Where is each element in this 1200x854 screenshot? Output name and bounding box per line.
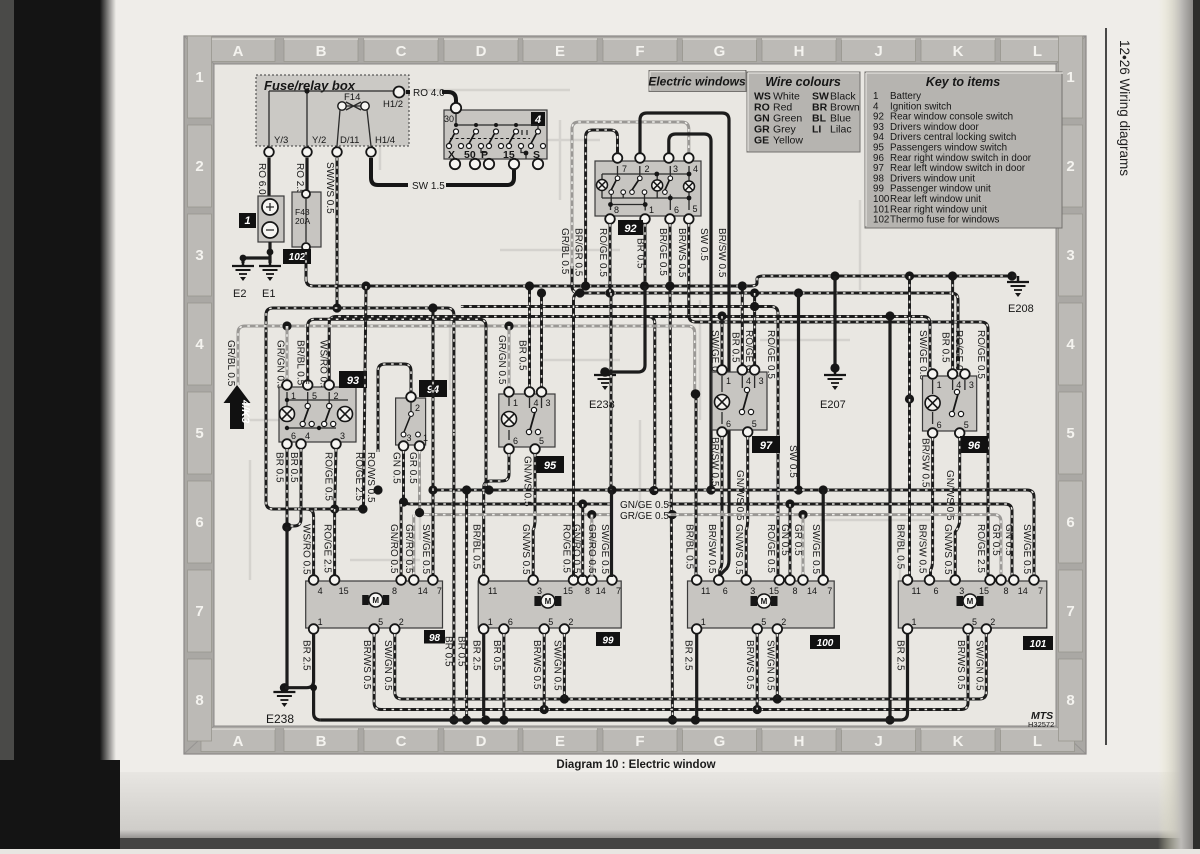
100 pin 6 — [714, 575, 728, 596]
92 internals — [597, 166, 695, 211]
wire GR/GN 0.5 from B6 to 93 pin 1 — [275, 326, 288, 390]
97 pin 3 — [750, 365, 764, 386]
98 pin 1 — [309, 617, 323, 634]
101 pin 1 — [903, 617, 917, 634]
svg-text:E208: E208 — [1008, 303, 1034, 315]
95 pin 5 — [530, 436, 544, 454]
svg-text:RO/GE 0.5: RO/GE 0.5 — [597, 228, 608, 277]
svg-text:GN 0.5: GN 0.5 — [779, 524, 790, 556]
battery B1 — [258, 196, 284, 242]
wire BR 2.5 from 98 pin 1 to E238 — [285, 634, 314, 688]
badge 96 — [960, 436, 988, 453]
svg-text:4: 4 — [534, 398, 539, 408]
92 pin 7 — [613, 153, 627, 174]
svg-text:8: 8 — [1004, 586, 1009, 596]
svg-text:6: 6 — [513, 436, 518, 446]
svg-text:RO 6.0: RO 6.0 — [256, 163, 267, 195]
badge 92 — [618, 220, 643, 235]
svg-text:1: 1 — [912, 617, 917, 627]
svg-text:SW 0.5: SW 0.5 — [787, 445, 798, 478]
svg-text:3: 3 — [759, 376, 764, 386]
grid column tab L top — [1001, 39, 1075, 62]
bus T3 GR/GE 0.5 — [427, 510, 1002, 577]
wire GN 0.5 from 94 pin 3 to bus T2 — [391, 451, 411, 507]
wire RO/GE 2.5 from T4 down to 98 pin 15 — [322, 509, 335, 577]
svg-text:GN/GE 0.5: GN/GE 0.5 — [620, 500, 669, 511]
svg-text:C: C — [396, 733, 407, 750]
grid row tab 3 right — [1059, 214, 1083, 296]
passenger window unit U99 — [478, 581, 621, 628]
svg-text:1: 1 — [726, 376, 731, 386]
svg-text:BR/WS 0.5: BR/WS 0.5 — [744, 640, 755, 690]
svg-text:SW/GN 0.5: SW/GN 0.5 — [764, 640, 775, 691]
svg-text:GN/WS 0.5: GN/WS 0.5 — [520, 524, 531, 575]
grid column tab K bottom — [921, 729, 995, 752]
fuse/relay box internal wiring — [269, 86, 399, 146]
grey bus B6 lamp ground — [238, 326, 695, 392]
svg-text:RO/GE 0.5: RO/GE 0.5 — [323, 452, 334, 501]
svg-text:1: 1 — [937, 380, 942, 390]
wire RO/GE 0.5 from B2 to 97 pin 3 — [743, 293, 755, 379]
grid row tab 8 right — [1059, 659, 1083, 741]
svg-text:3: 3 — [673, 164, 678, 174]
svg-text:BR 0.5: BR 0.5 — [517, 340, 528, 371]
95 pin 1 — [504, 387, 518, 408]
svg-text:GR 0.5: GR 0.5 — [990, 524, 1001, 556]
svg-text:4: 4 — [956, 380, 961, 390]
ground E1 — [259, 260, 281, 300]
svg-text:4: 4 — [693, 164, 698, 174]
svg-text:GN/RO 0.5: GN/RO 0.5 — [571, 524, 582, 574]
grid row tab 6 left — [188, 481, 212, 563]
svg-text:BR 2.5: BR 2.5 — [471, 640, 482, 671]
svg-text:GN/RO 0.5: GN/RO 0.5 — [388, 524, 399, 574]
wire RO/GE 0.5 from 93 pin 3 to bus T4 — [323, 449, 340, 514]
svg-text:8: 8 — [614, 205, 619, 215]
100 pin 8 — [785, 575, 797, 596]
100 pin 3 — [741, 575, 755, 596]
svg-text:M: M — [545, 597, 552, 606]
svg-text:G: G — [714, 43, 726, 60]
wire BR 0.5 from B1 to 96 pin 4 — [940, 271, 958, 371]
svg-text:Wire colours: Wire colours — [765, 75, 841, 89]
svg-text:D/11: D/11 — [340, 135, 359, 146]
wire BR/WS 0.5 from 100 pin 5 — [744, 634, 757, 710]
badge 99 — [596, 632, 620, 646]
motor M 98 — [362, 595, 369, 605]
svg-text:BR 0.5: BR 0.5 — [288, 452, 299, 483]
svg-text:BR 0.5: BR 0.5 — [729, 332, 740, 363]
98 pin 8 — [392, 575, 406, 596]
badge 102 — [283, 249, 311, 264]
svg-text:102: 102 — [289, 252, 306, 263]
wire SW/GE 0.5 from T1 to 100 pin 7 — [810, 490, 823, 577]
svg-text:7: 7 — [622, 164, 627, 174]
battery negative wire to grounds — [240, 242, 274, 263]
svg-text:3: 3 — [546, 398, 551, 408]
badge 1 — [239, 213, 256, 228]
99 pin 1 — [479, 617, 493, 634]
bus T4 local red/yellow link — [298, 508, 366, 511]
92 pin 2 — [635, 153, 649, 174]
svg-text:RO/GE 2.5: RO/GE 2.5 — [353, 452, 364, 501]
svg-text:M: M — [967, 597, 974, 606]
100 pin 2 — [773, 617, 787, 634]
bus B1 brown ground bus to E208 — [306, 276, 1012, 286]
99 pin 14 — [587, 575, 606, 596]
svg-text:GR/BL 0.5: GR/BL 0.5 — [225, 340, 236, 387]
bus T1 main supply RO/GE 2.5 — [428, 485, 1034, 577]
svg-text:8: 8 — [585, 586, 590, 596]
94 pin 1 — [415, 433, 428, 451]
svg-text:Electric windows: Electric windows — [648, 75, 746, 89]
wire GN/WS 0.5 from 95 pin 5 to 99 pin 3 — [522, 454, 536, 577]
svg-text:GN/WS 0.5: GN/WS 0.5 — [942, 524, 953, 575]
grid row tab 4 left — [188, 303, 212, 385]
svg-text:BR 0.5: BR 0.5 — [456, 636, 467, 667]
98 pin 14 — [409, 575, 428, 596]
wire BR 0.5 from 93 pin 4 to E238 bus — [288, 449, 301, 526]
svg-text:SW/GE 0.5: SW/GE 0.5 — [1021, 524, 1032, 574]
svg-text:98: 98 — [429, 633, 441, 644]
wire GN/RO 0.5 from T2 to 99 pin 8 — [571, 504, 583, 577]
svg-text:99: 99 — [602, 636, 614, 647]
svg-text:BR/GE 0.5: BR/GE 0.5 — [657, 228, 668, 276]
94 pin 3 — [399, 433, 412, 451]
svg-text:8: 8 — [793, 586, 798, 596]
svg-text:SW/GN 0.5: SW/GN 0.5 — [382, 640, 393, 691]
bus B3 window switch feed — [266, 308, 454, 577]
svg-text:4: 4 — [305, 431, 310, 441]
svg-text:7: 7 — [437, 586, 442, 596]
svg-text:3: 3 — [969, 380, 974, 390]
wire BR/SW 0.5 from 96 pin 6 to 101 pin 6 — [920, 438, 933, 577]
svg-text:GE: GE — [754, 135, 769, 147]
grid column tab H top — [762, 39, 836, 62]
100 pin 14 — [798, 575, 817, 596]
title box: Electric windows — [648, 71, 746, 92]
svg-text:3: 3 — [407, 433, 412, 443]
junctions on B2 — [605, 288, 614, 297]
96 pin 1 — [928, 369, 942, 390]
grid row tab 7 left — [188, 570, 212, 652]
98 pin 5 — [369, 617, 383, 634]
right page edge shadow — [1158, 0, 1200, 849]
100 pin 7 — [818, 575, 832, 596]
99 pin 11 — [479, 575, 497, 596]
svg-text:92: 92 — [624, 223, 636, 235]
svg-text:5: 5 — [972, 617, 977, 627]
svg-text:6: 6 — [674, 205, 679, 215]
svg-text:GN 0.5: GN 0.5 — [1003, 524, 1014, 556]
svg-text:100: 100 — [817, 638, 834, 649]
svg-text:96: 96 — [968, 440, 981, 452]
wire SW 0.5 from 92 pin 3 — [669, 134, 716, 495]
svg-text:5: 5 — [964, 420, 969, 430]
svg-text:6: 6 — [934, 586, 939, 596]
grid row tab 1 left — [188, 36, 212, 118]
svg-text:RO/GE 0.5: RO/GE 0.5 — [561, 524, 572, 573]
97 pin 4 — [738, 365, 752, 386]
svg-text:H: H — [794, 733, 805, 750]
rear left window unit U100 — [688, 581, 835, 628]
svg-text:BR/GR 0.5: BR/GR 0.5 — [573, 228, 584, 277]
93 pin 1 — [282, 380, 296, 401]
svg-text:BR 0.5: BR 0.5 — [491, 640, 502, 671]
svg-text:3: 3 — [750, 586, 755, 596]
svg-text:F: F — [635, 43, 644, 60]
svg-text:BR/SW 0.5: BR/SW 0.5 — [706, 524, 717, 574]
100 pin 15 — [769, 575, 784, 596]
grid row tab 7 right — [1059, 570, 1083, 652]
svg-text:14: 14 — [1018, 586, 1028, 596]
svg-text:H1/2: H1/2 — [383, 99, 403, 110]
grid column tab E bottom — [523, 729, 597, 752]
svg-text:SW/GE 0.5: SW/GE 0.5 — [599, 524, 610, 574]
svg-text:J: J — [874, 43, 882, 60]
svg-text:E207: E207 — [820, 399, 846, 411]
svg-text:K: K — [953, 43, 964, 60]
99 pin 3 — [528, 575, 542, 596]
bus B2 red/yellow feed bus — [572, 266, 958, 370]
grid column tab A bottom — [201, 729, 275, 752]
wire SW/WS 0.5 from D/11 down — [324, 158, 342, 313]
svg-text:7: 7 — [1038, 586, 1043, 596]
wire RO/GE 0.5 from B2 to 95 pin 3 — [537, 288, 546, 388]
bus T2 GN/GE 0.5 — [411, 499, 1013, 577]
motor M 101 — [957, 596, 964, 606]
badge 4 — [531, 112, 545, 126]
wire BR 2.5 from 99 pin 1 — [471, 634, 484, 716]
svg-text:11: 11 — [488, 586, 497, 596]
94 internals — [401, 402, 420, 437]
svg-text:95: 95 — [544, 460, 557, 472]
svg-text:3: 3 — [195, 247, 203, 264]
99 pin 15 — [563, 575, 578, 596]
svg-text:2: 2 — [645, 164, 650, 174]
95 pin 6 — [504, 436, 518, 454]
page margin rule — [1105, 28, 1107, 745]
wire BR 0.5 from B1 to 95 pin 4 — [517, 281, 535, 389]
svg-text:7: 7 — [195, 603, 203, 620]
svg-text:20A: 20A — [295, 216, 310, 226]
grid column tab K top — [921, 39, 995, 62]
svg-text:B: B — [316, 733, 327, 750]
wire SW 0.5 right riser — [787, 293, 803, 495]
svg-text:H1/4: H1/4 — [375, 135, 395, 146]
svg-text:BR/WS 0.5: BR/WS 0.5 — [531, 640, 542, 690]
100 pin 1 — [692, 617, 706, 634]
svg-text:3: 3 — [959, 586, 964, 596]
wire GR/RO 0.5 from T3 to 99 pin 14 — [586, 515, 597, 577]
rear left window switch U97 — [712, 372, 767, 430]
svg-text:14: 14 — [807, 586, 817, 596]
terminal Y/2 — [302, 135, 326, 157]
wire SW/GE 0.5 from T1 to 99 pin 7 — [599, 293, 612, 577]
wire BR 0.5 from 99 pin 6 — [491, 634, 504, 716]
96 internals — [925, 380, 965, 424]
svg-text:M: M — [372, 596, 379, 605]
ground E238 bottom — [266, 683, 295, 726]
grid column tab B top — [284, 39, 358, 62]
wire RO 2.5 from Y/2 to fuse 102 — [294, 158, 307, 195]
svg-text:BR/SW 0.5: BR/SW 0.5 — [716, 228, 727, 278]
97 pin 1 — [717, 365, 731, 386]
svg-text:GR/GN 0.5: GR/GN 0.5 — [496, 335, 507, 385]
wire GN/WS 0.5 from 96 pin 5 to 101 pin 3 — [944, 438, 960, 577]
wire BR/GE 0.5 from 92 pin 6 to bus B1 — [657, 224, 677, 725]
101 pin 3 — [950, 575, 964, 596]
92 pin 6 — [665, 205, 679, 224]
drivers window unit U98 — [306, 581, 443, 628]
grid column tab J bottom — [842, 729, 916, 752]
svg-text:SW/GN 0.5: SW/GN 0.5 — [973, 640, 984, 691]
svg-text:1: 1 — [649, 205, 654, 215]
badge 100 — [810, 635, 840, 649]
grid column tab D top — [444, 39, 518, 62]
svg-text:LI: LI — [812, 124, 821, 136]
svg-text:1: 1 — [701, 617, 706, 627]
wire BR 2.5 from 100 pin 1 — [682, 634, 696, 716]
svg-text:BR/SW 0.5: BR/SW 0.5 — [709, 437, 720, 487]
svg-text:H: H — [794, 43, 805, 60]
svg-text:WS/RO 0.5: WS/RO 0.5 — [301, 524, 312, 575]
junction on B1 at SW/WS drop — [361, 281, 370, 290]
wire GN 0.5 from T2 to 100 pin 8 — [779, 504, 790, 577]
svg-text:1: 1 — [1066, 69, 1074, 86]
92 pin 1 — [640, 205, 654, 224]
svg-text:L: L — [1033, 733, 1042, 750]
93 pin 5 — [303, 380, 317, 401]
svg-text:6: 6 — [195, 514, 203, 531]
wire BR/GR 0.5 from 92 pin 7 — [573, 130, 618, 291]
94 pin 2 — [406, 392, 420, 413]
svg-text:BR/BL 0.5: BR/BL 0.5 — [895, 524, 906, 570]
wire RO/GE 0.5 from 92 pin 8 to bus B2 — [597, 224, 610, 293]
svg-text:SW/GN 0.5: SW/GN 0.5 — [551, 640, 562, 691]
wire RO 2.5 from fuse 102 down to supply bus — [305, 252, 308, 281]
wire GN/WS 0.5 from 97 pin 5 to 100 pin 3 — [734, 437, 748, 577]
ignition switch U4 — [444, 110, 547, 159]
svg-text:BR/BL 0.5: BR/BL 0.5 — [294, 340, 305, 386]
svg-text:RO/WS 0.5: RO/WS 0.5 — [365, 452, 376, 503]
wire RO/WS 0.5 — [365, 452, 383, 503]
svg-text:L: L — [1033, 43, 1042, 60]
svg-text:5: 5 — [195, 425, 203, 442]
wire BR/BL 0.5 from 95 pin 6 to 99 pin 11 — [484, 454, 509, 577]
svg-text:4: 4 — [746, 376, 751, 386]
svg-text:E: E — [555, 43, 565, 60]
terminal Y/3 — [264, 135, 288, 157]
motor M 100 — [751, 596, 758, 606]
grid row tab 8 left — [188, 659, 212, 741]
svg-text:5: 5 — [761, 617, 766, 627]
wire GR 0.5 from 94 pin 1 to bus T3 — [407, 451, 427, 517]
svg-text:2: 2 — [568, 617, 573, 627]
trunk P4 BR ground trunk — [321, 634, 908, 725]
96 pin 3 — [960, 369, 974, 390]
wire RO 4.0 from H1/2 to ignition switch pin 30 — [406, 88, 456, 103]
drivers window switch U93 — [279, 387, 356, 442]
svg-text:RO 4.0: RO 4.0 — [413, 88, 445, 99]
grid column tab A top — [201, 39, 275, 62]
wire riser x486 — [308, 319, 494, 494]
wire SW/GN 0.5 from 99 pin 2 — [551, 634, 564, 699]
thermo fuse F102 — [292, 190, 321, 251]
svg-text:8: 8 — [195, 692, 203, 709]
wire riser x890 to bottom trunk — [885, 311, 894, 724]
svg-text:F14: F14 — [344, 92, 360, 103]
svg-text:E2: E2 — [233, 288, 246, 300]
svg-text:G: G — [714, 733, 726, 750]
svg-text:5: 5 — [548, 617, 553, 627]
svg-text:15: 15 — [979, 586, 989, 596]
svg-text:6: 6 — [291, 431, 296, 441]
101 pin 6 — [925, 575, 939, 596]
svg-text:SW/GE 0.5: SW/GE 0.5 — [810, 524, 821, 574]
ground E207 — [820, 276, 846, 411]
book gutter black band left — [0, 0, 18, 849]
svg-text:4: 4 — [1066, 336, 1075, 353]
grid column tab G top — [683, 39, 757, 62]
svg-text:101: 101 — [1030, 639, 1047, 650]
trunk P2 SW/GN 0.5 — [382, 634, 987, 704]
svg-text:D: D — [476, 43, 487, 60]
junctions on B6 — [282, 321, 291, 330]
grid row tab 6 right — [1059, 481, 1083, 563]
grid row tab 1 right — [1059, 36, 1083, 118]
badge 95 — [536, 456, 564, 473]
100 pin 11 — [692, 575, 710, 596]
svg-text:BR 2.5: BR 2.5 — [301, 640, 312, 671]
svg-text:SW/GE 0.5: SW/GE 0.5 — [420, 524, 431, 574]
svg-text:SW/WS 0.5: SW/WS 0.5 — [324, 162, 335, 214]
101 pin 11 — [903, 575, 921, 596]
92 pin 5 — [684, 204, 698, 224]
grid column tab C top — [364, 39, 438, 62]
98 pin 2 — [390, 617, 404, 634]
grid column tab L bottom — [1001, 729, 1075, 752]
97 pin 5 — [743, 419, 757, 437]
ground E208 — [1007, 271, 1034, 315]
svg-text:K: K — [953, 733, 964, 750]
grid row tab 4 right — [1059, 303, 1083, 385]
svg-text:BR 0.5: BR 0.5 — [635, 238, 646, 269]
grid column tab C bottom — [364, 729, 438, 752]
grid column tab E top — [523, 39, 597, 62]
93 pin 4 — [296, 431, 310, 449]
svg-text:2: 2 — [781, 617, 786, 627]
svg-text:RO/GE 0.5: RO/GE 0.5 — [975, 330, 986, 379]
wire BR 0.5 from 92 pin 1 to bus B1 — [635, 224, 659, 495]
svg-text:Key to items: Key to items — [926, 75, 1000, 89]
rear right window unit U101 — [898, 581, 1047, 628]
svg-text:2: 2 — [195, 158, 203, 175]
wire RO/GE 0.5 from T1 to 99 pin 15 — [561, 288, 585, 577]
svg-text:SW 1.5: SW 1.5 — [412, 181, 445, 192]
svg-text:6: 6 — [723, 586, 728, 596]
101 pin 7 — [1029, 575, 1043, 596]
svg-text:1: 1 — [195, 69, 203, 86]
svg-text:4: 4 — [318, 586, 323, 596]
svg-text:D: D — [476, 733, 487, 750]
svg-text:7: 7 — [827, 586, 832, 596]
svg-text:4: 4 — [534, 114, 541, 126]
svg-text:E238: E238 — [266, 712, 294, 726]
101 pin 2 — [982, 617, 996, 634]
passenger window switch U95 — [499, 394, 555, 447]
svg-text:1: 1 — [318, 617, 323, 627]
